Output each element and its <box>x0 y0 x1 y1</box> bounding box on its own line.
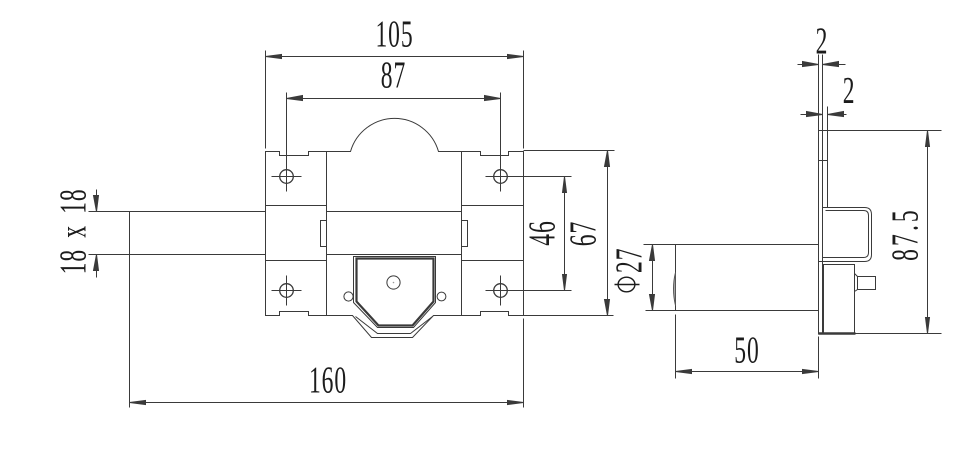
dimension 67 top extension <box>524 150 615 152</box>
escutcheon outer outline <box>354 257 436 328</box>
band upper boundary right segment <box>462 205 524 207</box>
svg-text:2: 2 <box>843 70 856 112</box>
dimension 160 arrows <box>130 401 146 405</box>
text phi27 digits <box>608 248 650 273</box>
dimension phi27 arrows <box>650 245 655 261</box>
text phi27 symbol <box>615 277 640 292</box>
screw hole upper-right <box>486 93 572 192</box>
dimension 2 first arrows <box>803 62 819 67</box>
bolt bar bottom edge <box>89 254 266 256</box>
dimension 2 second line right <box>828 114 847 116</box>
side view hook inner <box>823 211 869 258</box>
text 87 <box>381 54 406 96</box>
text 160 <box>309 359 347 401</box>
dimension 160 line <box>130 402 524 404</box>
bolt housing top edge <box>327 211 462 213</box>
dimension 46 line <box>564 177 566 291</box>
key cylinder center dot <box>393 282 395 284</box>
bolt bar left end / 160 extension line <box>129 212 131 408</box>
svg-text:160: 160 <box>309 359 347 401</box>
inner body right edge <box>461 152 463 316</box>
bolt housing bottom edge <box>327 254 462 256</box>
screw hole lower-left <box>272 276 302 306</box>
dimension 67 line <box>607 151 609 316</box>
inner body left edge <box>326 152 328 316</box>
bolt guide jog right <box>462 221 468 247</box>
band lower boundary left segment <box>266 260 327 262</box>
side view cylinder top edge <box>644 244 819 246</box>
dimension 18 arrows <box>94 196 99 212</box>
escutcheon inner outline <box>357 259 434 326</box>
key cylinder face circle <box>387 276 400 289</box>
dimension 105 line <box>266 56 524 58</box>
text 67 <box>562 221 604 246</box>
side view bolt stub flange <box>855 274 858 292</box>
svg-text:18 x 18: 18 x 18 <box>52 188 94 274</box>
side view plate weld tick <box>819 160 828 162</box>
svg-text:46: 46 <box>521 220 563 245</box>
dimension 105 extension left <box>265 51 267 149</box>
side view strike plate back line <box>822 55 824 335</box>
dimension 2 second line left <box>801 114 823 116</box>
svg-text:105: 105 <box>375 13 413 55</box>
text 50 <box>734 329 759 371</box>
escutcheon ear left <box>344 292 353 301</box>
text 46 <box>521 220 563 245</box>
text 105 <box>375 13 413 55</box>
dimension 2 first line right <box>823 64 846 66</box>
screw hole lower-right <box>486 276 572 306</box>
side view lock case bottom thick <box>819 332 856 335</box>
dimension 2 first line left <box>798 64 819 66</box>
svg-text:50: 50 <box>734 329 759 371</box>
dimension 50 extension right <box>818 337 820 379</box>
dimension 105 arrows <box>266 55 282 59</box>
dimension 87.5 arrows <box>926 131 930 147</box>
side view cylinder bottom edge <box>646 310 819 312</box>
escutcheon lower step line <box>356 317 433 334</box>
dimension 18 line lower <box>96 255 98 278</box>
dimension phi27 line <box>652 245 654 311</box>
side view bolt stub <box>858 277 876 290</box>
side view hook outer <box>819 208 872 262</box>
dimension 18 line upper <box>96 190 98 212</box>
side view cylinder left edge <box>675 245 677 311</box>
side view strike plate front line <box>818 55 820 335</box>
side view cylinder cap bulge <box>674 273 676 306</box>
band upper boundary left segment <box>266 205 327 207</box>
svg-text:27: 27 <box>608 248 650 273</box>
bolt guide jog left <box>321 221 327 247</box>
dimension 50 extension left <box>675 315 677 379</box>
band lower boundary right segment <box>462 260 524 262</box>
dimension 2 second arrows <box>807 112 823 117</box>
side view lock case outline <box>824 265 855 333</box>
escutcheon ear right <box>437 292 446 301</box>
dimension 50 line <box>676 371 819 373</box>
dimension 67 bottom extension <box>524 315 614 317</box>
svg-text:67: 67 <box>562 221 604 246</box>
dimension 105 extension right <box>523 51 525 149</box>
text 2 second <box>843 70 856 112</box>
side view second plate line <box>827 107 829 208</box>
dimension 87.5 top extension <box>819 130 942 132</box>
text 18x18 <box>52 188 94 274</box>
text 87.5 <box>884 207 926 261</box>
svg-text:87: 87 <box>381 54 406 96</box>
side view bottom extension line 87.5 <box>856 333 942 335</box>
dimension 160 extension right <box>523 319 525 408</box>
dimension 87 line <box>287 98 501 100</box>
text 2 first <box>816 20 829 62</box>
dimension 87 arrows <box>287 96 303 101</box>
dimension 67 arrows <box>605 151 610 167</box>
dimension 50 arrows <box>676 370 692 374</box>
lock body outer plate outline (front view) <box>266 118 524 337</box>
svg-text:2: 2 <box>816 20 829 62</box>
bolt bar top edge <box>89 211 266 213</box>
dimension 46 arrows <box>563 177 567 193</box>
dimension 87.5 line <box>927 131 929 334</box>
svg-text:87.5: 87.5 <box>884 207 926 261</box>
screw hole upper-left <box>272 93 302 192</box>
